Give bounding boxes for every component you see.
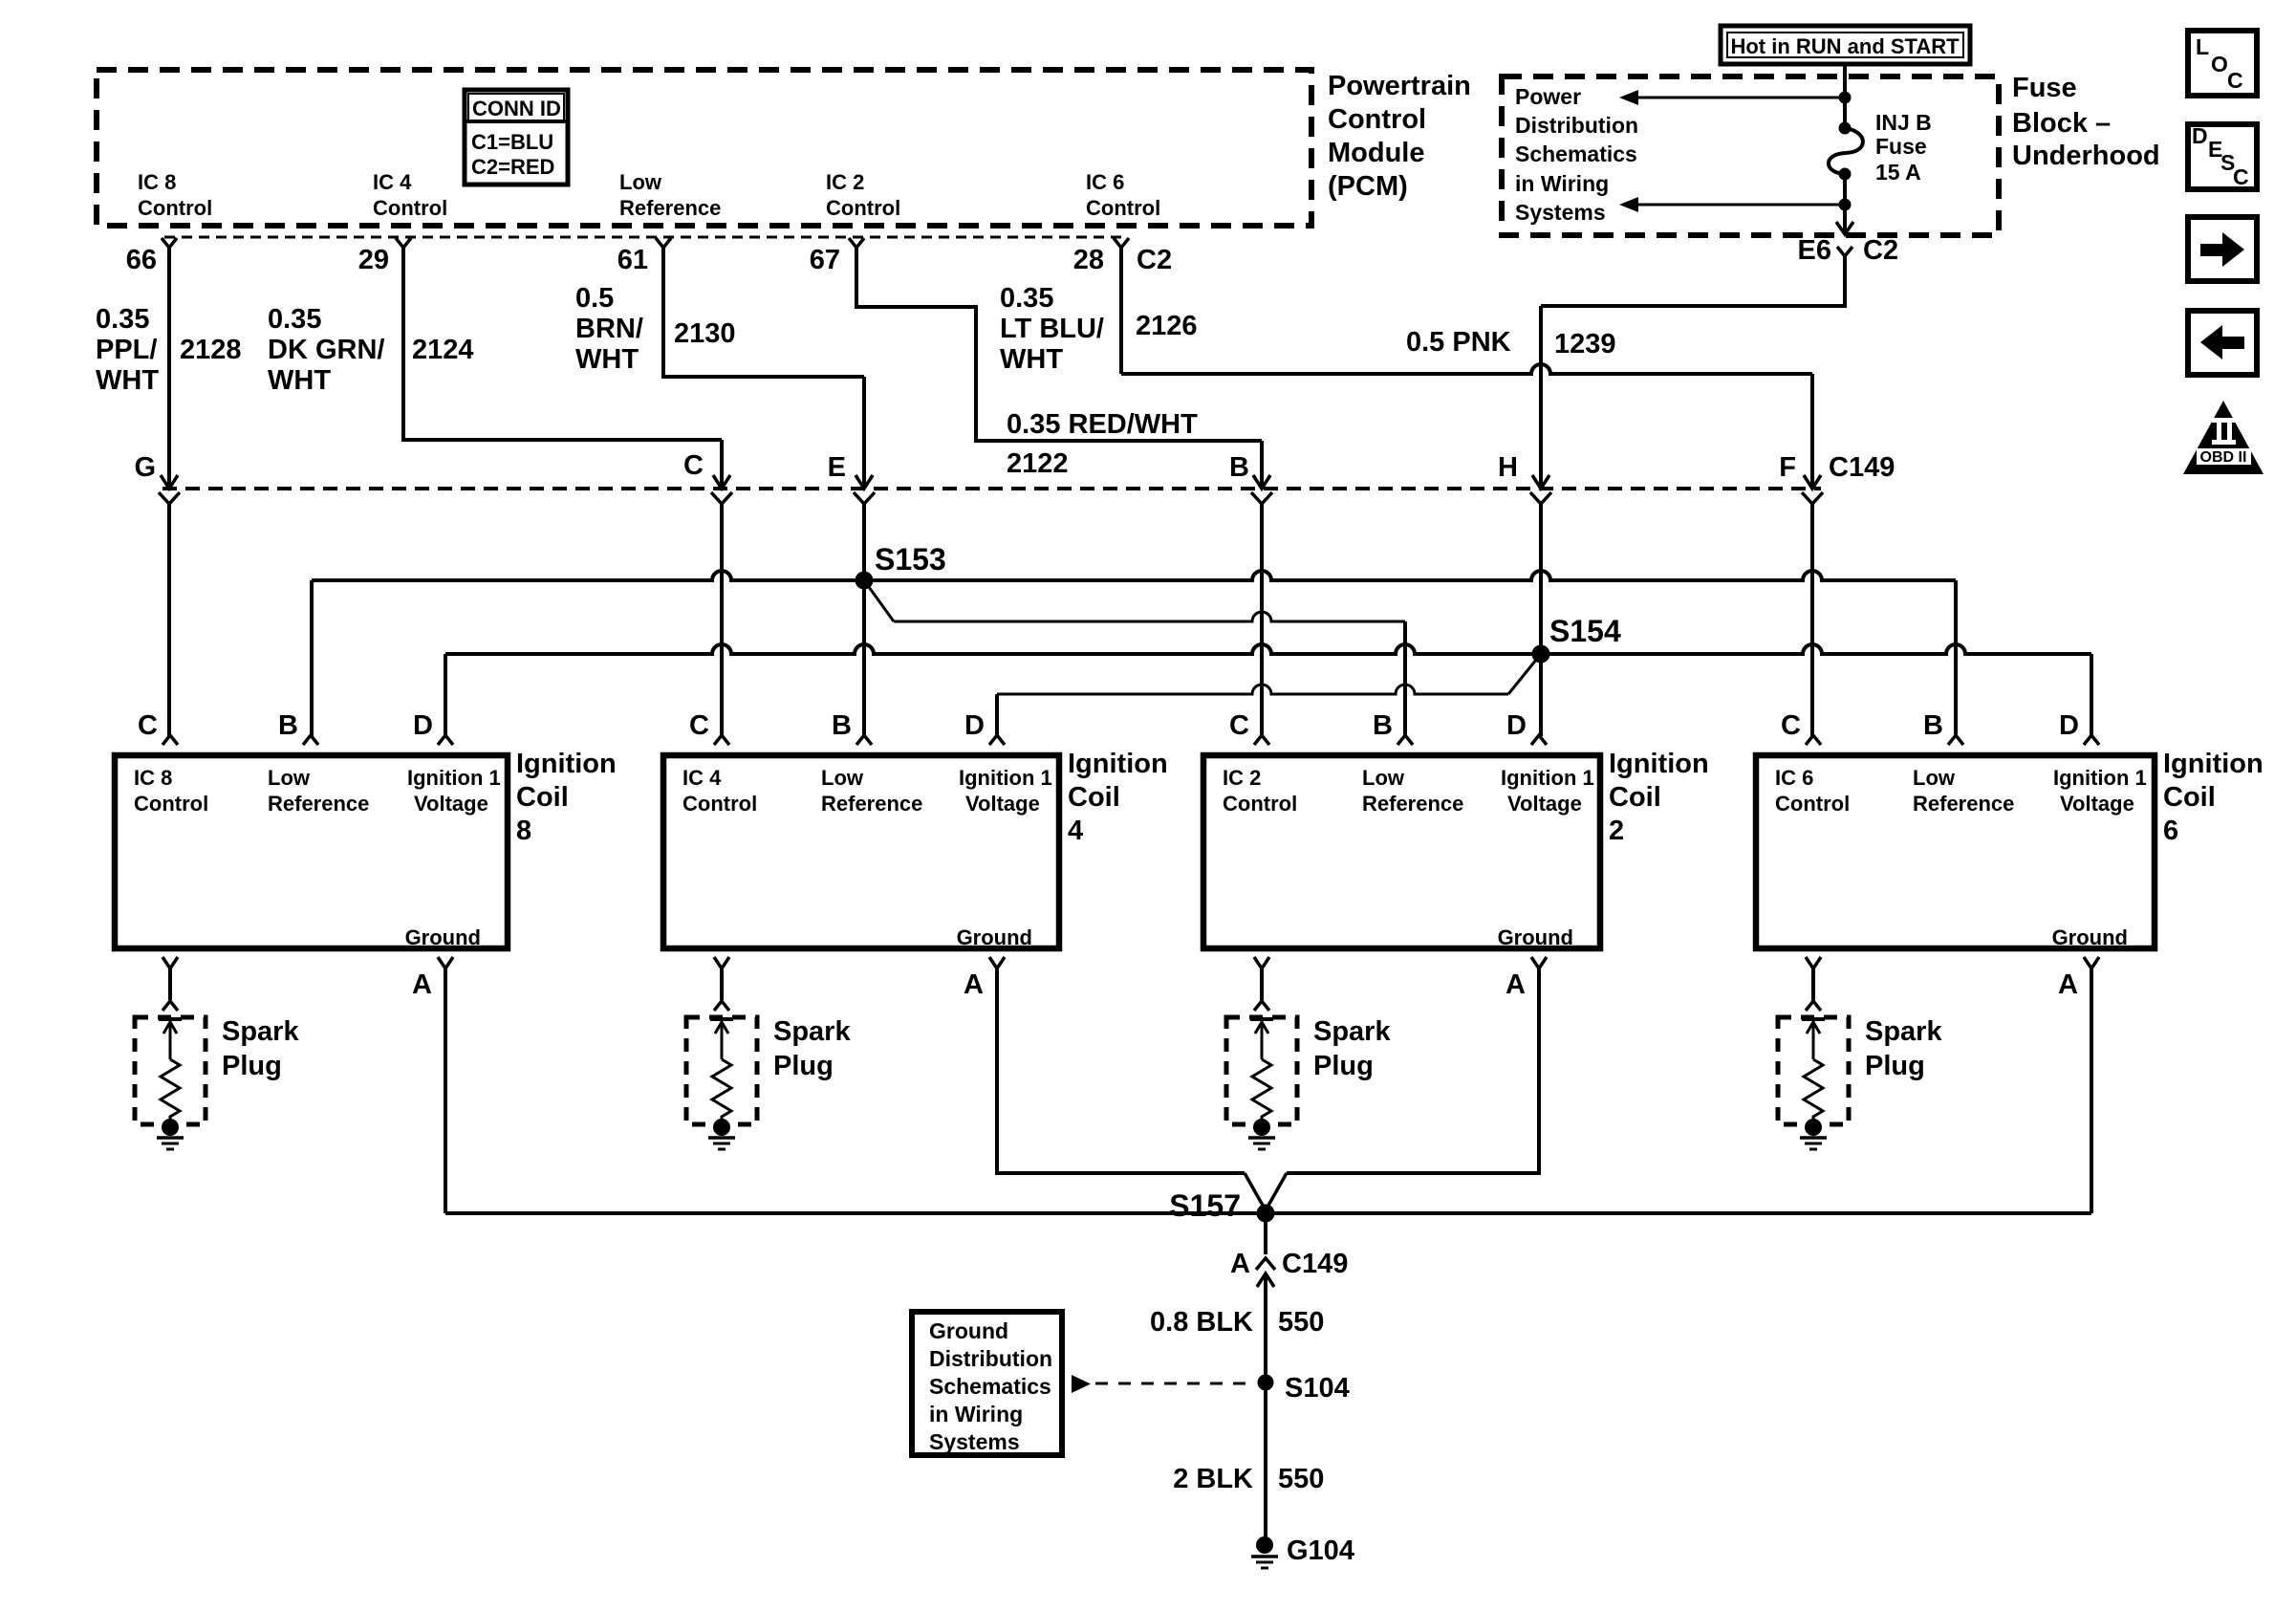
svg-text:Ground: Ground [405, 925, 481, 949]
svg-text:Control: Control [1086, 196, 1160, 220]
PCM connector C2 dashed line [164, 236, 1126, 239]
svg-text:PPL/: PPL/ [96, 335, 157, 365]
coil 2 pin D terminal [1531, 735, 1547, 745]
svg-text:28: 28 [1073, 245, 1104, 275]
ignition 1 voltage bus S154 [445, 644, 2091, 654]
svg-text:D: D [964, 710, 985, 741]
coil 2 pin C terminal [1254, 735, 1269, 745]
svg-text:C: C [2227, 68, 2243, 93]
svg-text:0.35: 0.35 [96, 304, 149, 335]
svg-text:OBD II: OBD II [2200, 449, 2247, 466]
svg-text:CONN ID: CONN ID [472, 97, 561, 120]
svg-text:WHT: WHT [1000, 344, 1063, 375]
svg-text:C: C [138, 710, 158, 741]
svg-text:67: 67 [810, 245, 840, 275]
connector C149 terminal B [1253, 475, 1270, 489]
svg-text:4: 4 [1068, 816, 1083, 846]
svg-text:8: 8 [516, 816, 531, 846]
svg-text:1239: 1239 [1554, 329, 1616, 359]
svg-text:A: A [2058, 969, 2078, 1000]
wire to coil6 C [1810, 504, 1814, 736]
svg-text:Ground: Ground [929, 1318, 1008, 1343]
svg-text:IC 6: IC 6 [1086, 170, 1124, 194]
coil 6 pin C terminal [1806, 735, 1821, 745]
svg-text:C2: C2 [1863, 235, 1898, 266]
coil 4 pin C terminal [714, 735, 729, 745]
S154 diagonal link [1508, 654, 1541, 694]
svg-text:Distribution: Distribution [1515, 113, 1638, 138]
svg-text:G: G [134, 452, 156, 483]
coil 2 pin B terminal [1397, 735, 1413, 745]
svg-text:IC 8: IC 8 [138, 170, 176, 194]
coil 6 ground pin A wire [2084, 957, 2099, 969]
spark plug resistor [161, 1059, 180, 1121]
spark plug resistor [1804, 1059, 1823, 1121]
svg-text:2122: 2122 [1007, 448, 1069, 479]
svg-text:C: C [683, 450, 704, 481]
CONN ID legend box [465, 90, 568, 185]
wire 1239 PNK from E6 jog [1541, 256, 1845, 306]
svg-text:A: A [964, 969, 984, 1000]
svg-text:Ignition 1: Ignition 1 [2053, 766, 2147, 790]
coil 4 ground pin A wire [989, 957, 1005, 969]
wire [1843, 174, 1847, 205]
wire to coil8 C [167, 504, 171, 736]
svg-text:Plug: Plug [773, 1051, 834, 1081]
svg-text:IC 8: IC 8 [134, 766, 172, 790]
svg-text:Ignition 1: Ignition 1 [959, 766, 1052, 790]
svg-text:Reference: Reference [619, 196, 721, 220]
svg-text:Underhood: Underhood [2012, 141, 2160, 171]
svg-text:Systems: Systems [929, 1429, 1020, 1454]
svg-text:O: O [2211, 52, 2228, 76]
pin 66 terminal [162, 238, 177, 248]
svg-text:C149: C149 [1282, 1249, 1348, 1279]
svg-text:C: C [1229, 710, 1249, 741]
forward arrow icon box [2188, 217, 2257, 281]
svg-text:Low: Low [1362, 766, 1405, 790]
svg-text:Voltage: Voltage [965, 792, 1040, 816]
svg-text:C149: C149 [1829, 452, 1895, 483]
svg-text:Block –: Block – [2012, 108, 2111, 139]
svg-text:B: B [1923, 710, 1943, 741]
wire to systems [1637, 204, 1845, 207]
bus down to coil6 D [2090, 654, 2093, 736]
wire to power distribution [1637, 97, 1845, 99]
svg-text:61: 61 [617, 245, 648, 275]
splice S153 [856, 572, 874, 590]
svg-text:IC 6: IC 6 [1775, 766, 1813, 790]
svg-text:0.5 PNK: 0.5 PNK [1406, 327, 1511, 358]
connector C149 terminal C [713, 475, 730, 489]
svg-text:Hot in RUN and START: Hot in RUN and START [1730, 34, 1960, 58]
svg-text:D: D [413, 710, 433, 741]
svg-text:G104: G104 [1287, 1535, 1354, 1566]
svg-text:Control: Control [1775, 792, 1850, 816]
ignition coil 8 box [115, 755, 508, 948]
bus down to coil8 B [310, 580, 314, 736]
svg-text:Ignition: Ignition [516, 749, 617, 779]
fuse bottom terminal [1839, 168, 1852, 181]
svg-text:LT BLU/: LT BLU/ [1000, 314, 1104, 344]
svg-text:WHT: WHT [268, 365, 331, 396]
ground G104 [1256, 1536, 1273, 1554]
pin 67 terminal [849, 238, 864, 248]
bus down to coil8 D [444, 654, 447, 736]
splice S154 [1532, 645, 1550, 664]
svg-text:D: D [2059, 710, 2079, 741]
svg-text:A: A [1230, 1249, 1250, 1279]
connector C149 terminal E [856, 475, 873, 489]
svg-text:B: B [1373, 710, 1393, 741]
svg-text:E6: E6 [1798, 235, 1831, 266]
connector C149 terminal H [1532, 475, 1549, 489]
svg-text:IC 4: IC 4 [373, 170, 412, 194]
LOC icon box [2188, 31, 2257, 96]
wire 2122 down to B [1260, 441, 1264, 489]
coil 8 pin D terminal [438, 735, 453, 745]
svg-text:Low: Low [821, 766, 864, 790]
pointer to S104 [1072, 1375, 1091, 1393]
ignition coil 6 box [1756, 755, 2155, 948]
svg-text:C1=BLU: C1=BLU [471, 130, 553, 154]
connector E6 C2 at fuse block [1837, 247, 1852, 256]
ignition coil 2 box [1203, 755, 1600, 948]
svg-text:Ignition: Ignition [2163, 749, 2264, 779]
wire down to coil2 B [1403, 621, 1407, 736]
svg-text:A: A [412, 969, 432, 1000]
svg-text:Reference: Reference [268, 792, 369, 816]
svg-text:0.35: 0.35 [268, 304, 321, 335]
coil 4 pin D terminal [989, 735, 1005, 745]
svg-text:C: C [1781, 710, 1801, 741]
wire 2130 BRN/WHT pin61 jog [663, 248, 864, 377]
svg-text:Reference: Reference [1913, 792, 2014, 816]
svg-text:C2: C2 [1137, 245, 1172, 275]
wire 2122 RED/WHT pin67 jogs [856, 248, 1262, 441]
svg-text:Plug: Plug [1313, 1051, 1374, 1081]
svg-text:Ignition: Ignition [1609, 749, 1709, 779]
spark plug resistor [712, 1059, 731, 1121]
low reference bus S153 [312, 571, 1956, 580]
wire 2128 PPL/WHT pin66 to G [167, 248, 171, 489]
svg-text:0.35: 0.35 [1000, 283, 1053, 314]
wire 1239 to S154/coil2 D [1539, 504, 1543, 736]
svg-text:C2=RED: C2=RED [471, 155, 554, 179]
svg-text:IC 2: IC 2 [826, 170, 864, 194]
svg-text:Spark: Spark [1313, 1016, 1391, 1047]
spark plug at x=178 [162, 957, 178, 969]
svg-text:S157: S157 [1169, 1188, 1241, 1223]
svg-text:Plug: Plug [1865, 1051, 1925, 1081]
OBD II icon [2183, 401, 2264, 474]
wire 1239 down to H [1539, 306, 1543, 489]
wire to E6 [1843, 205, 1847, 232]
wire [1843, 98, 1847, 128]
svg-text:INJ B: INJ B [1875, 110, 1932, 135]
wire 0.8 BLK 550 [1264, 1274, 1267, 1382]
connector C149 dashed line [162, 487, 1821, 490]
pin 29 terminal [396, 238, 411, 248]
wire to coil2 C [1260, 504, 1264, 736]
DESC icon box [2188, 124, 2257, 189]
svg-text:C: C [2233, 164, 2249, 189]
svg-text:(PCM): (PCM) [1328, 171, 1408, 202]
svg-text:Coil: Coil [516, 782, 569, 813]
junction [1839, 92, 1852, 104]
spark plug at x=1320 [1254, 957, 1269, 969]
bus down to coil6 B [1954, 580, 1958, 736]
svg-text:Ground: Ground [957, 925, 1032, 949]
svg-text:Spark: Spark [773, 1016, 851, 1047]
back arrow icon box [2188, 311, 2257, 375]
svg-text:Spark: Spark [222, 1016, 299, 1047]
svg-text:Ground: Ground [1498, 925, 1573, 949]
svg-text:Powertrain: Powertrain [1328, 71, 1471, 101]
PCM (Powertrain Control Module) dashed box [97, 70, 1311, 226]
wire down to coil4 D [995, 694, 999, 736]
S157 left diagonal [1245, 1173, 1266, 1210]
svg-text:Distribution: Distribution [929, 1346, 1052, 1371]
svg-text:550: 550 [1278, 1464, 1324, 1494]
svg-text:Coil: Coil [1068, 782, 1120, 813]
coil 2 ground pin A wire [1531, 957, 1547, 969]
svg-text:S154: S154 [1549, 614, 1621, 648]
svg-text:2 BLK: 2 BLK [1173, 1464, 1253, 1494]
svg-text:Control: Control [826, 196, 900, 220]
wire 2 BLK 550 [1264, 1382, 1267, 1545]
Hot in RUN and START box [1721, 26, 1970, 64]
svg-text:H: H [1498, 452, 1518, 483]
spark plug ground [1800, 1136, 1827, 1140]
svg-text:WHT: WHT [96, 365, 159, 396]
svg-text:66: 66 [126, 245, 157, 275]
svg-text:Low: Low [619, 170, 662, 194]
spark plug ground [1248, 1136, 1275, 1140]
wire 2124 DK GRN/WHT pin29 jog [403, 248, 722, 440]
svg-text:Ignition 1: Ignition 1 [1501, 766, 1594, 790]
S157 right diagonal [1266, 1173, 1287, 1210]
ground bus to S157 [445, 1211, 2091, 1215]
svg-text:Plug: Plug [222, 1051, 282, 1081]
wire 2124 down to C [720, 440, 724, 489]
svg-text:Spark: Spark [1865, 1016, 1942, 1047]
fuse top terminal [1839, 122, 1852, 135]
svg-text:Voltage: Voltage [1507, 792, 1582, 816]
svg-text:0.8 BLK: 0.8 BLK [1150, 1307, 1253, 1338]
svg-text:Control: Control [138, 196, 212, 220]
wire to coil4 C [720, 504, 724, 736]
svg-text:29: 29 [358, 245, 389, 275]
svg-text:IC 2: IC 2 [1223, 766, 1261, 790]
spark plug at x=755 [714, 957, 729, 969]
svg-text:D: D [1506, 710, 1527, 741]
svg-text:Reference: Reference [1362, 792, 1463, 816]
svg-text:BRN/: BRN/ [575, 314, 643, 344]
svg-text:Reference: Reference [821, 792, 922, 816]
connector C149 terminal G [161, 475, 178, 489]
svg-text:D: D [2192, 123, 2208, 148]
wire 550 BLK [1264, 1213, 1267, 1254]
link S154 to coil4 D [997, 685, 1508, 694]
svg-text:Voltage: Voltage [414, 792, 488, 816]
svg-text:Ignition: Ignition [1068, 749, 1168, 779]
svg-text:0.5: 0.5 [575, 283, 614, 314]
svg-text:Coil: Coil [1609, 782, 1661, 813]
svg-text:in Wiring: in Wiring [929, 1402, 1023, 1426]
ignition coil 4 box [663, 755, 1059, 948]
svg-text:Control: Control [373, 196, 447, 220]
svg-text:F: F [1779, 452, 1796, 483]
coil 8 ground pin A wire [438, 957, 453, 969]
svg-text:15 A: 15 A [1875, 160, 1921, 185]
Fuse Block - Underhood dashed box [1502, 76, 1999, 235]
wire 2126 jog right (hops 1239) [1121, 364, 1812, 374]
splice S104 [1258, 1375, 1274, 1391]
svg-text:Control: Control [134, 792, 208, 816]
link S153 to coil2 B [894, 612, 1405, 621]
pin 28 terminal [1114, 238, 1129, 248]
wire 2126 down to F [1810, 374, 1814, 489]
svg-text:Control: Control [1328, 104, 1426, 135]
svg-text:Fuse: Fuse [1875, 134, 1927, 159]
svg-text:Low: Low [1913, 766, 1956, 790]
svg-text:Control: Control [682, 792, 757, 816]
svg-text:S153: S153 [875, 542, 946, 577]
svg-text:B: B [832, 710, 852, 741]
svg-text:in Wiring: in Wiring [1515, 171, 1609, 196]
svg-text:Fuse: Fuse [2012, 73, 2077, 103]
pin 61 terminal [656, 238, 671, 248]
spark plug at x=1897 [1806, 957, 1821, 969]
svg-text:2126: 2126 [1136, 311, 1198, 341]
svg-text:Systems: Systems [1515, 200, 1606, 225]
svg-text:DK GRN/: DK GRN/ [268, 335, 384, 365]
spark plug resistor [1252, 1059, 1271, 1121]
svg-text:WHT: WHT [575, 344, 639, 375]
svg-text:E: E [828, 452, 846, 483]
svg-text:Module: Module [1328, 138, 1425, 168]
svg-text:6: 6 [2163, 816, 2178, 846]
svg-text:L: L [2196, 34, 2209, 59]
svg-text:Coil: Coil [2163, 782, 2216, 813]
wire 2130 down to E [862, 377, 866, 489]
spark plug ground [708, 1136, 735, 1140]
svg-text:Low: Low [268, 766, 311, 790]
junction [1839, 199, 1852, 211]
Ground Distribution Schematics note box [912, 1312, 1062, 1455]
coil 8 pin B terminal [303, 735, 318, 745]
coil 6 pin B terminal [1948, 735, 1963, 745]
svg-text:2130: 2130 [674, 318, 736, 349]
fuse INJ B 15 A element [1829, 128, 1863, 174]
spark plug ground [157, 1136, 184, 1140]
svg-text:2128: 2128 [180, 335, 242, 365]
wire 2126 LT BLU/WHT pin28 down [1119, 248, 1123, 374]
svg-text:Voltage: Voltage [2060, 792, 2134, 816]
svg-text:Control: Control [1223, 792, 1297, 816]
svg-text:Ignition 1: Ignition 1 [407, 766, 501, 790]
svg-text:2124: 2124 [412, 335, 474, 365]
svg-text:B: B [1229, 452, 1249, 483]
connector C149 terminal F [1804, 475, 1821, 489]
wire from Hot feed [1843, 64, 1847, 98]
coil 8 pin C terminal [162, 735, 178, 745]
coil 4 pin B terminal [856, 735, 872, 745]
svg-text:IC 4: IC 4 [682, 766, 722, 790]
svg-text:2: 2 [1609, 816, 1624, 846]
svg-text:Power: Power [1515, 84, 1581, 109]
svg-text:A: A [1505, 969, 1526, 1000]
svg-text:0.35 RED/WHT: 0.35 RED/WHT [1007, 409, 1198, 440]
connector C149 terminal A [1256, 1258, 1275, 1270]
svg-text:C: C [689, 710, 709, 741]
splice S157 [1257, 1205, 1275, 1223]
svg-text:S104: S104 [1285, 1373, 1350, 1404]
coil 6 pin D terminal [2084, 735, 2099, 745]
svg-text:Schematics: Schematics [1515, 142, 1637, 166]
svg-text:550: 550 [1278, 1307, 1324, 1338]
wire low reference to S153/coil4 B [862, 504, 866, 736]
S153 diagonal link [864, 580, 894, 621]
svg-text:Schematics: Schematics [929, 1374, 1051, 1399]
svg-text:B: B [278, 710, 298, 741]
svg-text:Ground: Ground [2052, 925, 2128, 949]
